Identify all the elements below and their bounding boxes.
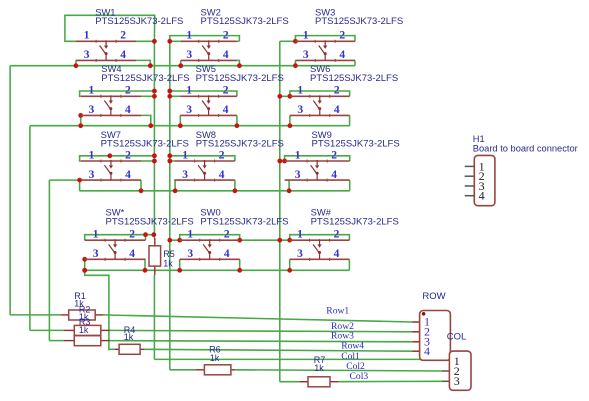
wire SW8 pin1 stub — [170, 160, 175, 162]
connector H1 — [465, 134, 578, 206]
wire SW2 pin2 stub — [237, 40, 240, 42]
node SW3 pin1 junction — [293, 39, 298, 44]
svg-text:4: 4 — [129, 248, 135, 260]
wire net Row4 to ROW pin4 — [144, 349, 412, 351]
wire SW* pin1 bump — [85, 235, 154, 241]
svg-text:4: 4 — [331, 169, 337, 181]
wire net Col3 to COL pin3 — [338, 380, 442, 382]
svg-text:2: 2 — [129, 229, 135, 241]
wire R1 feed — [10, 314, 60, 316]
svg-text:1k: 1k — [163, 259, 173, 269]
resistor R1 — [60, 291, 103, 320]
connector ROW — [413, 291, 451, 360]
wire SW* pin2 stub up — [145, 235, 147, 241]
node SW9 / COL3 junction — [277, 159, 282, 164]
svg-text:PTS125SJK73-2LFS: PTS125SJK73-2LFS — [312, 139, 400, 150]
node SW1 pin4 junction — [148, 63, 153, 68]
svg-text:PTS125SJK73-2LFS: PTS125SJK73-2LFS — [106, 216, 194, 227]
svg-text:1: 1 — [88, 85, 94, 97]
svg-text:2: 2 — [339, 30, 345, 42]
svg-text:3: 3 — [187, 248, 193, 260]
wire SW4 pin4 stub — [141, 115, 151, 125]
svg-text:1: 1 — [303, 30, 309, 42]
svg-text:Row1: Row1 — [326, 305, 349, 316]
net label Col1 — [341, 351, 360, 362]
resistor R5 — [149, 238, 175, 275]
node SW2 pin3 junction — [178, 63, 183, 68]
svg-text:ROW: ROW — [422, 291, 445, 302]
resistor R2 — [64, 304, 110, 335]
wire net COL2 vertical — [169, 41, 171, 370]
svg-text:3: 3 — [297, 104, 303, 116]
node SW5 pin1 / COL2 junction — [167, 94, 172, 99]
svg-text:3: 3 — [182, 169, 188, 181]
svg-text:1: 1 — [93, 229, 99, 241]
wire SW7 pin4 drop — [140, 180, 142, 191]
wire SW0 pin1 bump — [180, 235, 240, 241]
svg-text:4: 4 — [125, 169, 131, 181]
wire SW6 pin3 drop — [289, 115, 291, 125]
switch SW1 — [76, 6, 183, 62]
node SW* pin3 junction — [82, 268, 87, 273]
wire SW2 pin4 drop — [237, 60, 240, 65]
wire SW0 pin4 drop — [239, 259, 241, 270]
wire net Row3 to ROW pin3 — [110, 341, 413, 342]
switch SW8 — [174, 129, 284, 182]
wire SW7 pin2 stub — [141, 160, 154, 162]
wire net ROW1 left drop — [9, 66, 11, 315]
svg-text:4: 4 — [223, 104, 229, 116]
node ROW4 feed junction — [82, 268, 87, 273]
node SW1 pin3 junction — [74, 63, 79, 68]
node SW1 pin2 / COL1 junction — [152, 39, 157, 44]
svg-text:1k: 1k — [124, 332, 134, 342]
svg-text:1k: 1k — [79, 325, 89, 335]
wire R4 left link — [109, 348, 115, 350]
svg-text:1: 1 — [297, 85, 303, 97]
wire SW8 pin4 drop — [234, 180, 236, 191]
node SW7 bump mid node — [107, 153, 112, 158]
wire net ROW2 left drop — [29, 126, 31, 331]
node SW3 pin3 junction — [293, 63, 298, 68]
wire SW1 pin2 stub — [136, 40, 154, 42]
svg-text:PTS125SJK73-2LFS: PTS125SJK73-2LFS — [196, 73, 284, 84]
wire SW3 pin3 drop — [294, 60, 296, 65]
svg-text:4: 4 — [424, 344, 430, 358]
node SW7 bump / COL1 junction — [152, 153, 157, 158]
node SW# pin3 junction — [287, 268, 292, 273]
svg-text:3: 3 — [186, 104, 192, 116]
switch SW4 — [81, 63, 190, 117]
node SW6 / COL3 junction — [277, 94, 282, 99]
svg-text:1: 1 — [89, 149, 95, 161]
svg-text:PTS125SJK73-2LFS: PTS125SJK73-2LFS — [196, 139, 284, 150]
node SW9 pin3 junction — [287, 188, 292, 193]
svg-text:2: 2 — [125, 85, 131, 97]
wire SW5 pin1 bump — [170, 91, 237, 96]
node SW2 pin4 junction — [237, 63, 242, 68]
switch SW# — [290, 207, 399, 261]
node SW0 pin1 / COL2 junction — [167, 238, 172, 243]
wire net COL1 horizontal — [154, 358, 449, 360]
svg-text:4: 4 — [223, 49, 229, 61]
node SW5 bump / COL2 junction — [167, 89, 172, 94]
wire SW0 pin2 link — [240, 239, 290, 241]
node SW9 pin1 junction — [282, 159, 287, 164]
node SW4 pin2 / COL1 junction — [152, 94, 157, 99]
svg-text:3: 3 — [454, 374, 460, 388]
wire net ROW1 horizontal — [10, 65, 355, 67]
wire net ROW4 to R4 — [85, 270, 109, 350]
wire SW1 pin1 loop — [65, 15, 155, 41]
wire SW* pin3 drop — [84, 259, 86, 270]
wire SW9 pin1 bump — [285, 156, 350, 161]
svg-text:4: 4 — [334, 104, 340, 116]
wire net ROW3 horizontal — [80, 190, 350, 192]
wire net ROW2 horizontal — [30, 125, 350, 127]
net label Row1 — [326, 305, 349, 316]
svg-text:PTS125SJK73-2LFS: PTS125SJK73-2LFS — [201, 16, 289, 27]
svg-text:1: 1 — [186, 30, 192, 42]
svg-text:4: 4 — [120, 49, 126, 61]
svg-text:Col3: Col3 — [350, 371, 369, 382]
switch SW9 — [285, 129, 400, 182]
wire net ROW3 left exit — [49, 179, 79, 181]
node SW4 pin4 junction — [148, 123, 153, 128]
wire SW4 pin1 bump — [80, 91, 155, 96]
switch SW5 — [180, 63, 283, 117]
node SW* bump / COL1 junction — [151, 232, 156, 237]
wire net COL3 vertical — [279, 41, 281, 381]
node SW7 pin4 junction — [139, 188, 144, 193]
node SW0 pin4 junction — [237, 268, 242, 273]
svg-text:3: 3 — [303, 49, 309, 61]
net label Col2 — [346, 361, 365, 372]
node SW0 pin3 junction — [177, 268, 182, 273]
wire SW7 pin3 drop — [79, 180, 81, 191]
node SW6 pin1 junction — [288, 94, 293, 99]
wire SW4 pin2 stub — [141, 95, 154, 97]
node SW* pin3 node — [82, 257, 87, 262]
svg-text:4: 4 — [125, 104, 131, 116]
svg-text:3: 3 — [84, 49, 90, 61]
wire SW5 pin4 drop — [236, 115, 238, 125]
svg-text:1: 1 — [187, 229, 193, 241]
svg-text:3: 3 — [93, 248, 99, 260]
svg-text:PTS125SJK73-2LFS: PTS125SJK73-2LFS — [310, 73, 398, 84]
wire SW4 pin3 drop — [80, 115, 82, 125]
wire net COL1 below R5 — [153, 275, 155, 359]
node SW5 pin4 junction — [235, 123, 240, 128]
node SW4 pin3 node — [78, 113, 83, 118]
switch SW7 — [81, 129, 189, 182]
wire R3 feed — [49, 340, 64, 342]
net label Col3 — [350, 371, 369, 382]
wire net Row2 to ROW pin2 — [110, 330, 413, 331]
svg-text:3: 3 — [295, 169, 301, 181]
svg-text:2: 2 — [224, 229, 230, 241]
svg-text:Board to board connector: Board to board connector — [473, 144, 578, 154]
svg-text:4: 4 — [224, 248, 230, 260]
wire R2 feed — [30, 329, 64, 331]
resistor R4 — [114, 325, 144, 355]
wire SW6 pin1 bump — [290, 91, 350, 96]
wire SW9 pin4 drop — [349, 180, 351, 191]
svg-text:1k: 1k — [314, 363, 324, 373]
wire SW0 pin3 drop — [179, 259, 181, 270]
wire SW# pin4 drop — [348, 259, 350, 270]
svg-text:4: 4 — [334, 248, 340, 260]
node SW# pin1 junction — [287, 238, 292, 243]
net label Row4 — [341, 341, 364, 352]
svg-text:2: 2 — [223, 30, 229, 42]
svg-text:2: 2 — [334, 229, 340, 241]
wire SW6 pin1 to COL3 — [280, 95, 290, 97]
svg-text:1: 1 — [84, 30, 90, 42]
wire SW# pin1 bump — [290, 235, 350, 241]
wire SW0 pin1 stub — [170, 239, 180, 241]
svg-text:3: 3 — [297, 248, 303, 260]
node SW* pin4 junction — [143, 268, 148, 273]
wire SW3 pin1 to COL3 — [280, 40, 296, 42]
svg-text:4: 4 — [339, 49, 345, 61]
switch SW6 — [290, 63, 398, 117]
svg-text:2: 2 — [219, 149, 225, 161]
wire SW9 pin1 to COL3 — [280, 160, 285, 162]
svg-text:R5: R5 — [163, 249, 175, 259]
wire SW2 pin1 bump — [170, 36, 240, 42]
svg-text:PTS125SJK73-2LFS: PTS125SJK73-2LFS — [200, 216, 288, 227]
svg-text:2: 2 — [331, 149, 337, 161]
node SW5 pin3 junction — [178, 123, 183, 128]
svg-text:1: 1 — [182, 149, 188, 161]
svg-text:2: 2 — [125, 149, 131, 161]
svg-text:4: 4 — [219, 169, 225, 181]
svg-text:1: 1 — [186, 85, 192, 97]
svg-text:PTS125SJK73-2LFS: PTS125SJK73-2LFS — [101, 73, 189, 84]
node SW8 bump / COL2 junction — [167, 153, 172, 158]
svg-text:COL: COL — [447, 332, 467, 343]
wire SW* pin4 drop — [144, 259, 146, 270]
svg-text:PTS125SJK73-2LFS: PTS125SJK73-2LFS — [311, 216, 399, 227]
wire SW5 pin3 drop — [179, 115, 181, 125]
wire SW5 pin1 stub — [170, 95, 181, 97]
wire SW8 pin3 drop — [174, 180, 176, 191]
node COL3 row4 junction — [277, 238, 282, 243]
wire SW6 pin4 drop — [349, 115, 351, 125]
node SW0 pin1 junction — [177, 238, 182, 243]
wire net COL1 vertical — [153, 41, 155, 238]
wire SW3 pin4 drop — [354, 60, 356, 65]
switch SW* — [85, 207, 194, 261]
wire SW2 pin3 drop — [180, 60, 182, 65]
switch SW2 — [181, 6, 289, 62]
node SW7 pin2 / COL1 junction — [152, 159, 157, 164]
svg-text:1: 1 — [295, 149, 301, 161]
net label Row3 — [331, 330, 354, 341]
wire SW1 pin4 stub — [136, 60, 150, 65]
svg-text:3: 3 — [88, 104, 94, 116]
resistor R7 — [299, 355, 338, 387]
resistor R6 — [195, 345, 235, 375]
node SW* pin2 junction — [143, 232, 148, 237]
wire net COL3 to R7 — [280, 381, 300, 383]
wire net ROW3 left drop — [48, 180, 50, 341]
resistor R3 — [64, 317, 110, 346]
connector COL — [442, 332, 471, 391]
wire SW3 pin1 bump — [295, 36, 355, 42]
wire SW8 pin1 bump — [170, 156, 235, 161]
svg-text:4: 4 — [479, 189, 485, 203]
wire net Row1 to ROW pin1 — [103, 315, 413, 322]
node SW4 bump / COL1 junction — [152, 89, 157, 94]
node SW2 pin1 / COL2 junction — [167, 39, 172, 44]
svg-text:PTS125SJK73-2LFS: PTS125SJK73-2LFS — [315, 16, 403, 27]
svg-text:2: 2 — [334, 85, 340, 97]
node SW7 pin3 node — [77, 178, 82, 183]
wire SW1 pin3 drop — [75, 60, 77, 65]
node SW6 pin3 junction — [288, 123, 293, 128]
node SW0 pin2 junction — [237, 238, 242, 243]
wire net ROW4 horizontal — [85, 269, 350, 271]
svg-text:2: 2 — [120, 30, 126, 42]
svg-text:1: 1 — [297, 229, 303, 241]
svg-text:3: 3 — [186, 49, 192, 61]
svg-text:PTS125SJK73-2LFS: PTS125SJK73-2LFS — [101, 139, 189, 150]
node SW8 pin3 junction — [173, 188, 178, 193]
svg-text:PTS125SJK73-2LFS: PTS125SJK73-2LFS — [95, 16, 183, 27]
wire net Col2 to COL pin2 — [235, 370, 442, 371]
wire SW9 pin3 drop — [288, 180, 290, 191]
svg-text:2: 2 — [223, 85, 229, 97]
switch SW0 — [180, 207, 289, 261]
wire SW2 pin1 stub — [170, 40, 181, 42]
wire SW7 pin1 bump — [80, 156, 155, 161]
node SW8 pin1 / COL2 junction — [167, 159, 172, 164]
wire net COL2 to R6 — [170, 369, 195, 371]
svg-text:3: 3 — [89, 169, 95, 181]
node SW8 pin4 junction — [233, 188, 238, 193]
wire SW# pin3 drop — [289, 259, 291, 270]
node SW4 pin3 junction — [78, 123, 83, 128]
svg-text:1k: 1k — [210, 353, 220, 363]
net label Row2 — [331, 321, 354, 332]
switch SW3 — [295, 6, 403, 62]
